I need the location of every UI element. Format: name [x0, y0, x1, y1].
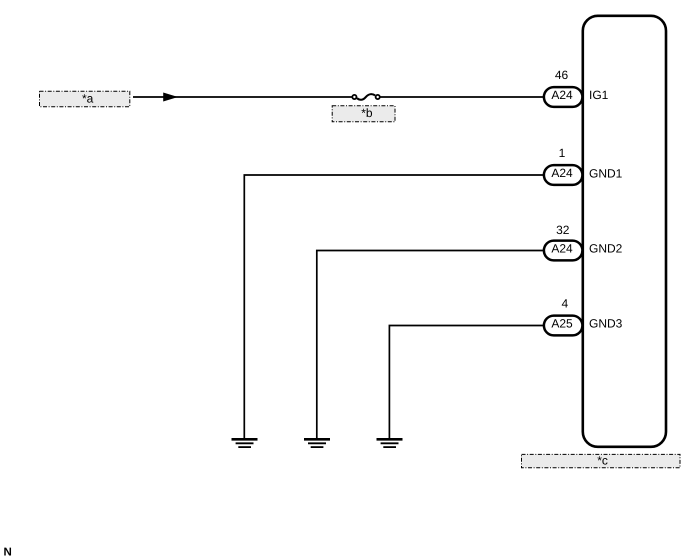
svg-text:*b: *b: [361, 106, 373, 120]
svg-text:A24: A24: [551, 166, 573, 180]
svg-text:A25: A25: [551, 317, 573, 331]
svg-text:N: N: [4, 547, 12, 559]
svg-text:*a: *a: [82, 91, 94, 105]
svg-text:GND2: GND2: [589, 242, 623, 256]
svg-text:1: 1: [559, 146, 566, 160]
svg-text:GND3: GND3: [589, 317, 623, 331]
svg-text:A24: A24: [551, 242, 573, 256]
svg-text:A24: A24: [551, 88, 573, 102]
svg-text:GND1: GND1: [589, 167, 623, 181]
svg-text:IG1: IG1: [589, 88, 609, 102]
svg-text:*c: *c: [597, 453, 608, 467]
svg-text:46: 46: [555, 68, 569, 82]
svg-text:32: 32: [556, 223, 570, 237]
svg-text:4: 4: [561, 297, 568, 311]
